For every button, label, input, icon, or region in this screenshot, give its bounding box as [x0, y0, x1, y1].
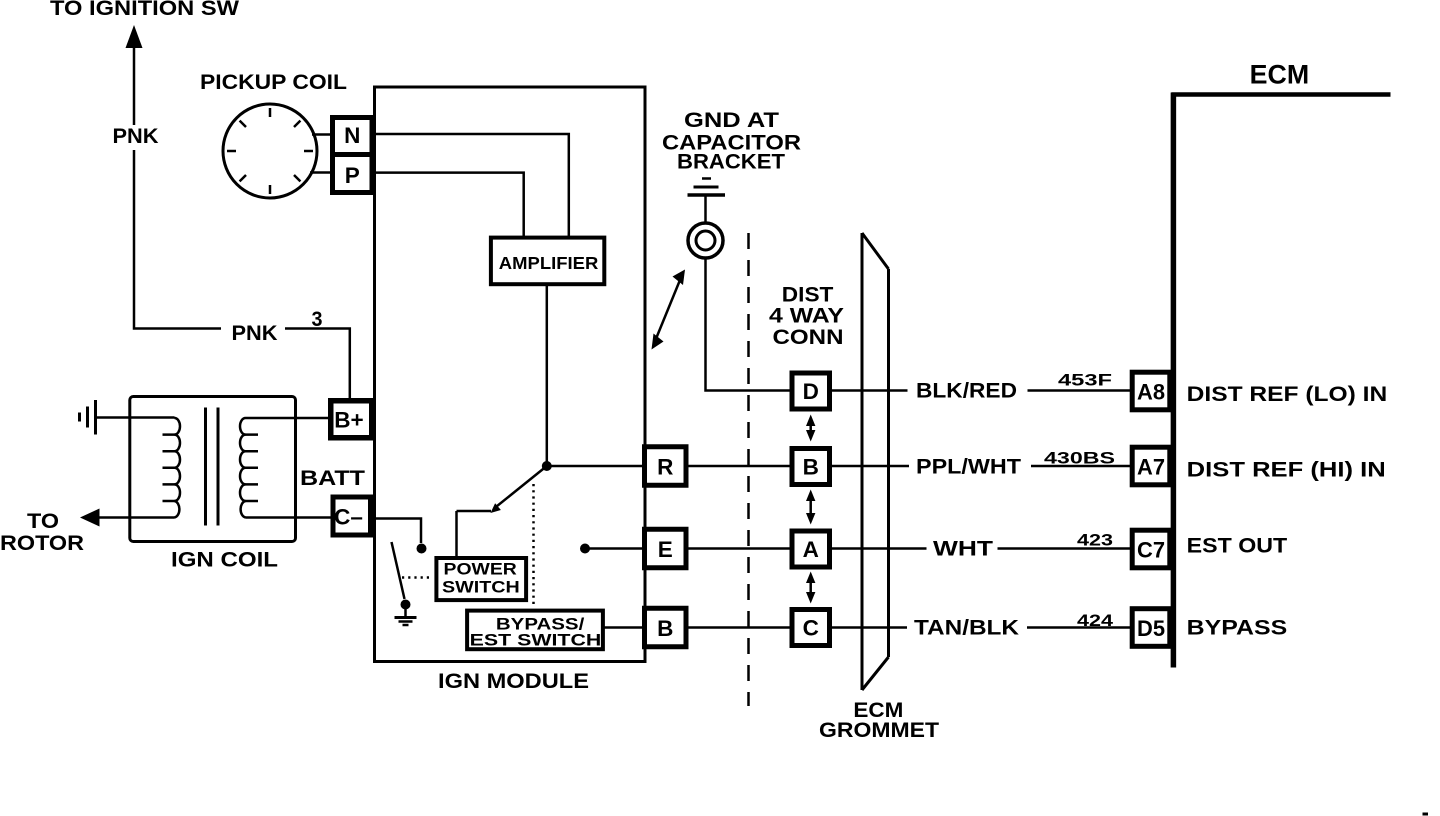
svg-text:DIST REF (LO) IN: DIST REF (LO) IN — [1187, 382, 1388, 406]
IGN module box — [375, 87, 646, 662]
dashed boundary line — [747, 233, 750, 706]
wire bypass to B pin — [604, 626, 645, 629]
pickup coil tick marks — [227, 108, 313, 194]
svg-text:EST SWITCH: EST SWITCH — [470, 631, 602, 650]
wire primary to rotor — [99, 516, 175, 519]
bypass est switch box — [467, 611, 603, 650]
wire B row left — [830, 465, 910, 468]
wire C- into module — [372, 519, 421, 544]
svg-text:C–: C– — [334, 505, 363, 530]
svg-text:423: 423 — [1077, 532, 1113, 550]
svg-text:C: C — [803, 615, 819, 640]
wire pickup to P — [310, 171, 330, 174]
arrow to rotor — [80, 509, 100, 527]
wire C row right — [1027, 626, 1131, 629]
svg-text:B: B — [803, 454, 819, 479]
stray dash mark — [1423, 813, 1429, 816]
node ground switch contact — [417, 544, 427, 554]
pin D box — [792, 373, 830, 409]
svg-text:TO IGNITION SW: TO IGNITION SW — [50, 0, 239, 20]
connector N P outer — [333, 118, 373, 193]
wire ring to D — [706, 258, 790, 391]
svg-text:GND AT: GND AT — [684, 109, 779, 132]
double arrow gnd flex — [657, 280, 681, 338]
pin A8 box — [1132, 372, 1170, 410]
wire A row left — [830, 547, 927, 550]
wire C row left — [830, 626, 908, 629]
pin B conn box — [792, 449, 830, 485]
wire B row right — [1031, 465, 1131, 468]
svg-text:N: N — [344, 123, 360, 148]
svg-text:SWITCH: SWITCH — [442, 579, 520, 597]
svg-text:R: R — [657, 454, 673, 479]
pin D5 box — [1132, 609, 1170, 647]
svg-text:A: A — [803, 537, 819, 562]
svg-text:PNK: PNK — [232, 322, 278, 345]
node E dot — [580, 544, 590, 554]
ring terminal inner — [696, 231, 715, 250]
primary winding L1 — [175, 418, 181, 518]
switch blade arrowhead — [491, 503, 501, 513]
wire junction to R pin — [547, 465, 645, 468]
pin E box — [645, 529, 687, 568]
wire ground to ring — [704, 197, 707, 224]
svg-text:WHT: WHT — [933, 538, 993, 561]
svg-text:BLK/RED: BLK/RED — [916, 380, 1017, 403]
svg-text:TO: TO — [27, 510, 59, 533]
ground under switch — [404, 605, 407, 617]
svg-text:453F: 453F — [1058, 372, 1112, 390]
node junction R — [542, 461, 552, 471]
svg-text:GROMMET: GROMMET — [819, 719, 939, 742]
svg-text:PNK: PNK — [113, 125, 159, 148]
wire amplifier output — [546, 285, 549, 466]
pin C7 box — [1132, 530, 1170, 568]
ECM bus horizontal — [1172, 92, 1391, 97]
svg-text:PICKUP COIL: PICKUP COIL — [200, 71, 347, 94]
svg-text:A8: A8 — [1137, 379, 1165, 404]
wire PNK vertical lower — [134, 150, 221, 329]
arrow to ignition switch — [126, 25, 143, 48]
ground at capacitor bracket — [702, 177, 711, 180]
svg-text:B+: B+ — [334, 408, 363, 433]
svg-text:C7: C7 — [1137, 537, 1165, 562]
wire R to B conn — [687, 465, 792, 468]
core lines — [206, 408, 219, 526]
power switch box — [436, 558, 526, 600]
pin R box — [645, 447, 687, 486]
svg-text:B: B — [657, 616, 673, 641]
svg-text:4 WAY: 4 WAY — [769, 305, 844, 328]
wire ground to primary — [96, 416, 175, 419]
wire blade to power switch — [457, 511, 492, 557]
svg-text:D5: D5 — [1137, 616, 1165, 641]
svg-text:AMPLIFIER: AMPLIFIER — [499, 253, 599, 273]
ground at coil primary — [94, 400, 97, 435]
pin C- box — [333, 497, 371, 535]
pickup coil circle — [223, 104, 317, 198]
wire E to A conn — [687, 547, 792, 550]
switch blade EST select — [494, 466, 547, 509]
double arrow D-B — [809, 420, 812, 436]
svg-text:PPL/WHT: PPL/WHT — [916, 456, 1021, 479]
pin A box — [792, 531, 830, 567]
svg-text:E: E — [658, 537, 673, 562]
wire P to amplifier — [375, 173, 524, 237]
svg-text:P: P — [345, 163, 360, 188]
secondary winding L2 — [240, 418, 246, 518]
svg-text:POWER: POWER — [444, 561, 518, 579]
primary winding ticks — [163, 435, 176, 501]
svg-text:ROTOR: ROTOR — [0, 532, 84, 555]
wire secondary to C- — [246, 516, 334, 519]
double arrow A-C — [809, 577, 812, 599]
grommet shape — [862, 233, 889, 690]
wire N to amplifier — [375, 134, 569, 237]
switch blade ground — [392, 542, 405, 599]
wire pickup to N — [312, 133, 330, 136]
wire PNK vertical upper — [133, 44, 136, 125]
svg-text:CONN: CONN — [773, 326, 844, 349]
svg-text:IGN MODULE: IGN MODULE — [438, 670, 589, 693]
svg-text:DIST: DIST — [782, 284, 834, 307]
node ground switch pivot — [401, 600, 411, 610]
wire A row right — [998, 547, 1132, 550]
amplifier U1 box — [491, 238, 604, 285]
svg-text:ECM: ECM — [1250, 60, 1310, 90]
pin B box — [645, 608, 687, 647]
wire B to C conn — [687, 626, 792, 629]
pin C box — [792, 610, 830, 646]
svg-text:IGN COIL: IGN COIL — [171, 549, 278, 572]
pin A7 box — [1132, 447, 1170, 485]
wire PNK to B+ — [285, 329, 350, 401]
svg-text:BYPASS: BYPASS — [1187, 616, 1288, 640]
wire E dot to E pin — [585, 547, 645, 550]
svg-text:D: D — [803, 379, 819, 404]
pin B+ box — [331, 401, 372, 438]
svg-text:BRACKET: BRACKET — [677, 151, 785, 174]
dotted link blade to power switch — [402, 576, 431, 579]
svg-text:EST OUT: EST OUT — [1187, 534, 1288, 558]
wire secondary to B+ — [246, 417, 332, 420]
dotted link blade to bypass switch — [532, 484, 535, 606]
svg-text:TAN/BLK: TAN/BLK — [914, 617, 1019, 640]
svg-text:DIST REF (HI) IN: DIST REF (HI) IN — [1187, 458, 1386, 482]
wire D row left — [830, 389, 908, 392]
ring terminal outer — [688, 223, 723, 258]
ECM bus vertical — [1171, 93, 1177, 668]
svg-text:BATT: BATT — [300, 467, 365, 490]
ignition coil T1 box — [130, 397, 296, 542]
connector N P divider — [330, 152, 375, 157]
secondary winding ticks — [245, 435, 259, 501]
double arrow B-A — [809, 496, 812, 518]
svg-text:A7: A7 — [1137, 454, 1165, 479]
wire D row right — [1028, 389, 1132, 392]
